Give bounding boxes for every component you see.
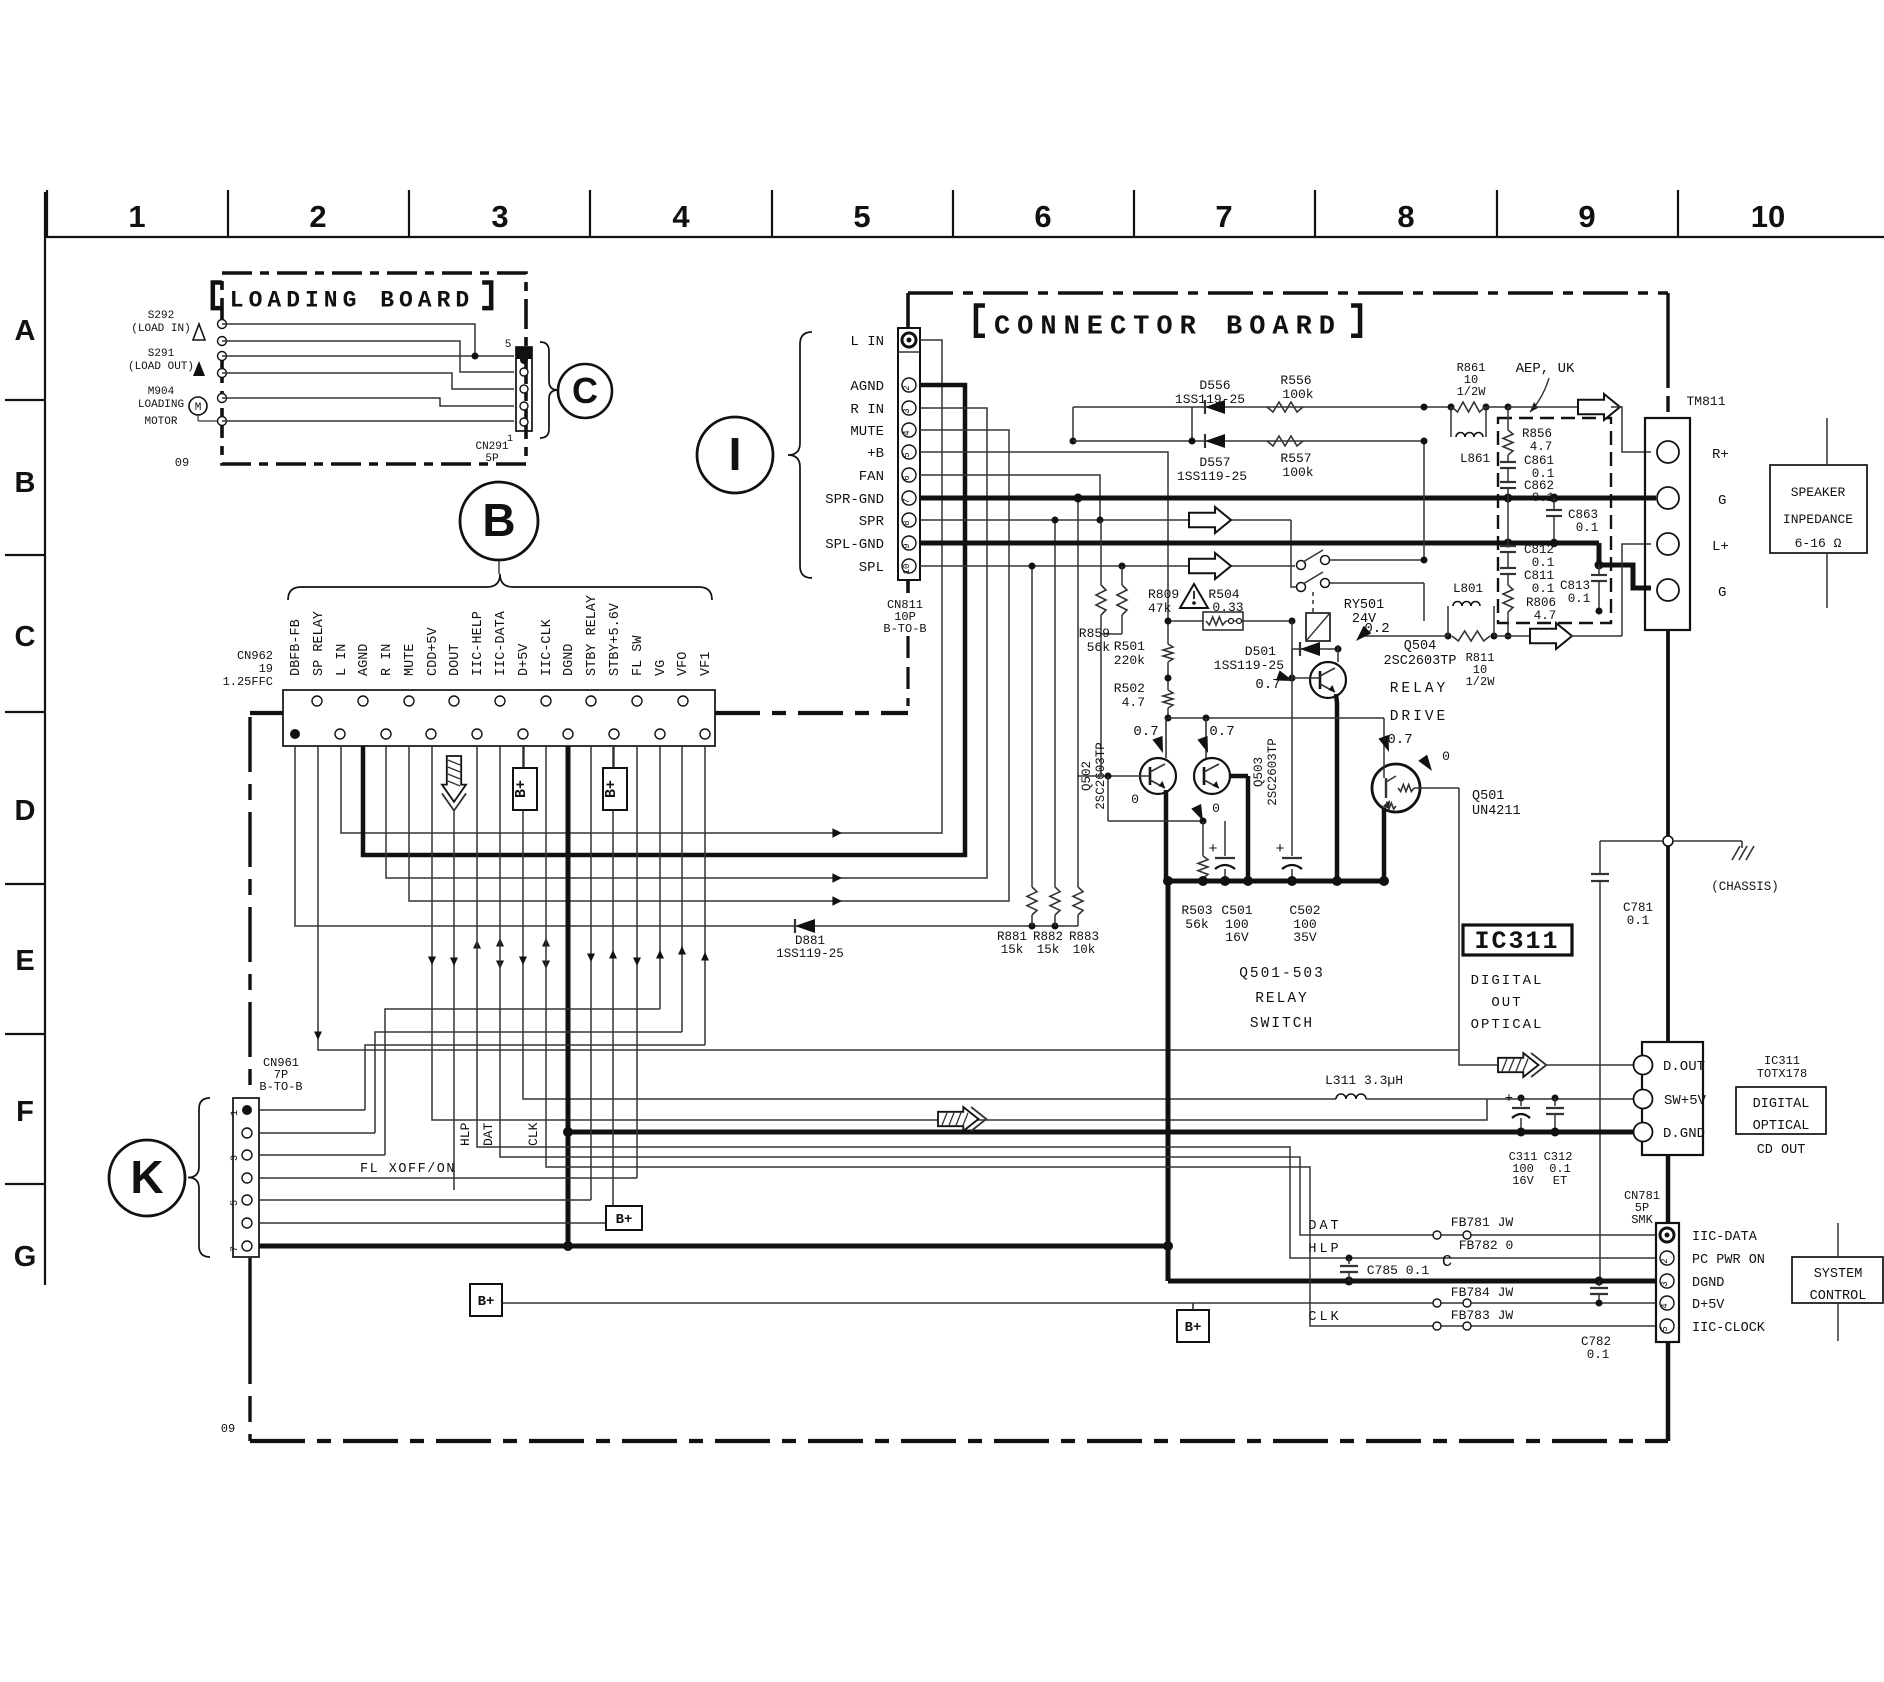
svg-text:IIC-DATA: IIC-DATA (494, 610, 509, 676)
svg-text:3: 3 (902, 408, 912, 413)
svg-text:6-16 Ω: 6-16 Ω (1795, 536, 1842, 551)
svg-text:0: 0 (1212, 801, 1220, 816)
svg-text:PC PWR ON: PC PWR ON (1692, 1253, 1765, 1268)
svg-text:AEP, UK: AEP, UK (1516, 361, 1575, 377)
svg-text:TM811: TM811 (1686, 394, 1725, 409)
svg-text:5: 5 (902, 452, 912, 457)
svg-text:220k: 220k (1114, 653, 1145, 668)
svg-text:L311 3.3µH: L311 3.3µH (1325, 1073, 1403, 1088)
svg-text:D.OUT: D.OUT (1663, 1059, 1705, 1075)
svg-text:C811: C811 (1524, 569, 1554, 583)
svg-text:S292: S292 (148, 310, 174, 322)
svg-text:C: C (15, 621, 36, 653)
svg-text:G: G (1718, 493, 1726, 509)
svg-text:15k: 15k (1001, 943, 1024, 957)
svg-text:Q502: Q502 (1080, 761, 1094, 791)
svg-text:19: 19 (259, 662, 273, 676)
svg-text:A: A (15, 315, 36, 347)
svg-text:6: 6 (902, 475, 912, 480)
svg-text:R502: R502 (1114, 681, 1145, 696)
svg-text:0.7: 0.7 (1209, 724, 1234, 740)
svg-text:DBFB-FB: DBFB-FB (289, 619, 304, 676)
svg-text:35V: 35V (1293, 930, 1317, 945)
svg-text:3: 3 (1660, 1281, 1670, 1286)
svg-text:C812: C812 (1524, 543, 1554, 557)
svg-text:CD OUT: CD OUT (1757, 1143, 1806, 1158)
svg-text:C: C (572, 370, 598, 411)
svg-text:Q501-503: Q501-503 (1239, 966, 1325, 982)
svg-text:RY501: RY501 (1344, 598, 1385, 613)
svg-text:16V: 16V (1512, 1174, 1534, 1188)
svg-text:IIC-HELP: IIC-HELP (471, 611, 486, 676)
svg-text:Q503: Q503 (1252, 757, 1266, 787)
svg-text:B+: B+ (616, 1212, 633, 1228)
svg-text:F: F (16, 1096, 34, 1128)
svg-text:10k: 10k (1073, 943, 1096, 957)
svg-text:0.1: 0.1 (1627, 914, 1650, 928)
svg-text:B+: B+ (1185, 1320, 1202, 1336)
svg-text:I: I (729, 428, 742, 480)
svg-text:1SS119-25: 1SS119-25 (776, 947, 844, 961)
svg-text:ET: ET (1553, 1174, 1567, 1188)
svg-text:56k: 56k (1185, 917, 1209, 932)
svg-text:CONTROL: CONTROL (1810, 1289, 1867, 1304)
svg-text:C785 0.1: C785 0.1 (1367, 1263, 1430, 1278)
svg-text:4: 4 (902, 430, 912, 435)
svg-text:CN962: CN962 (237, 649, 273, 663)
svg-text:8: 8 (902, 520, 912, 525)
svg-text:R+: R+ (1712, 447, 1729, 463)
svg-text:1/2W: 1/2W (1457, 385, 1487, 399)
svg-text:0.7: 0.7 (1133, 724, 1158, 740)
svg-text:2SC2603TP: 2SC2603TP (1266, 738, 1280, 806)
svg-text:56k: 56k (1087, 640, 1111, 655)
svg-text:SPR: SPR (859, 514, 885, 530)
svg-text:(LOAD OUT): (LOAD OUT) (128, 361, 194, 373)
svg-text:B-TO-B: B-TO-B (883, 622, 926, 636)
svg-text:SWITCH: SWITCH (1250, 1016, 1314, 1032)
svg-text:0.7: 0.7 (1387, 732, 1412, 748)
svg-text:M: M (195, 402, 202, 414)
svg-text:2: 2 (1660, 1258, 1670, 1263)
svg-text:RELAY: RELAY (1255, 991, 1309, 1007)
svg-text:FAN: FAN (859, 469, 884, 485)
svg-text:09: 09 (175, 456, 189, 470)
svg-text:OPTICAL: OPTICAL (1753, 1119, 1810, 1134)
svg-text:2: 2 (902, 385, 912, 390)
svg-text:B-TO-B: B-TO-B (259, 1080, 302, 1094)
svg-text:R881: R881 (997, 930, 1027, 944)
svg-text:R806: R806 (1526, 596, 1556, 610)
svg-text:4.7: 4.7 (1530, 440, 1553, 454)
svg-text:100k: 100k (1282, 465, 1313, 480)
svg-text:FB782 0: FB782 0 (1459, 1238, 1514, 1253)
svg-text:M904: M904 (148, 386, 175, 398)
svg-text:4: 4 (1660, 1303, 1670, 1308)
svg-text:DAT: DAT (481, 1122, 496, 1146)
svg-text:R809: R809 (1148, 587, 1179, 602)
svg-text:R501: R501 (1114, 639, 1145, 654)
svg-text:DIGITAL: DIGITAL (1753, 1097, 1810, 1112)
svg-text:R556: R556 (1280, 373, 1311, 388)
svg-text:RELAY: RELAY (1390, 681, 1449, 697)
svg-text:+B: +B (867, 446, 884, 462)
svg-text:FB781 JW: FB781 JW (1451, 1215, 1514, 1230)
svg-text:4: 4 (672, 199, 690, 234)
svg-text:AGND: AGND (850, 379, 884, 395)
svg-text:MOTOR: MOTOR (144, 416, 177, 428)
svg-text:2: 2 (309, 199, 326, 234)
svg-text:S291: S291 (148, 348, 175, 360)
svg-text:9: 9 (902, 543, 912, 548)
svg-text:0.1: 0.1 (1587, 1348, 1610, 1362)
svg-text:IIC-CLK: IIC-CLK (540, 618, 555, 676)
svg-text:SP RELAY: SP RELAY (312, 611, 327, 676)
svg-text:3: 3 (491, 199, 508, 234)
svg-text:R IN: R IN (850, 402, 884, 418)
svg-text:09: 09 (221, 1422, 235, 1436)
svg-text:Q501: Q501 (1472, 789, 1504, 804)
svg-text:IC311: IC311 (1474, 927, 1559, 956)
svg-text:5P: 5P (485, 453, 499, 465)
svg-text:DIGITAL: DIGITAL (1471, 973, 1544, 989)
svg-text:L IN: L IN (850, 334, 884, 350)
svg-text:Q504: Q504 (1404, 639, 1436, 654)
svg-text:SPL-GND: SPL-GND (825, 537, 884, 553)
svg-text:MUTE: MUTE (403, 644, 418, 676)
svg-text:10: 10 (902, 564, 912, 575)
svg-text:5: 5 (853, 199, 870, 234)
svg-text:C: C (1442, 1253, 1452, 1272)
svg-text:UN4211: UN4211 (1472, 804, 1521, 819)
svg-text:1.25FFC: 1.25FFC (223, 675, 273, 689)
svg-text:7: 7 (902, 498, 912, 503)
svg-text:D881: D881 (795, 934, 825, 948)
svg-text:100k: 100k (1282, 387, 1313, 402)
svg-text:(LOAD IN): (LOAD IN) (131, 323, 190, 335)
svg-text:STBY+5.6V: STBY+5.6V (608, 602, 623, 676)
svg-text:E: E (15, 945, 34, 977)
svg-text:VG: VG (654, 660, 669, 676)
svg-text:IC311: IC311 (1764, 1054, 1800, 1068)
svg-text:FB783 JW: FB783 JW (1451, 1308, 1514, 1323)
svg-text:B+: B+ (513, 780, 530, 798)
svg-text:OPTICAL: OPTICAL (1471, 1017, 1544, 1033)
svg-text:D+5V: D+5V (1692, 1298, 1725, 1313)
svg-text:7: 7 (230, 1246, 241, 1252)
svg-text:TOTX178: TOTX178 (1757, 1067, 1807, 1081)
svg-text:D+5V: D+5V (517, 643, 532, 676)
svg-text:1SS119-25: 1SS119-25 (1177, 469, 1247, 484)
svg-text:L861: L861 (1460, 452, 1490, 466)
svg-text:CONNECTOR BOARD: CONNECTOR BOARD (994, 313, 1342, 343)
svg-text:5: 5 (1660, 1326, 1670, 1331)
svg-text:1/2W: 1/2W (1466, 675, 1496, 689)
svg-text:15k: 15k (1037, 943, 1060, 957)
svg-text:4.7: 4.7 (1534, 609, 1557, 623)
svg-text:+: + (1275, 841, 1284, 858)
svg-text:D557: D557 (1199, 455, 1230, 470)
svg-text:D556: D556 (1199, 378, 1230, 393)
svg-text:7: 7 (1215, 199, 1232, 234)
svg-text:2SC2603TP: 2SC2603TP (1094, 742, 1108, 810)
svg-text:L801: L801 (1453, 582, 1483, 596)
svg-text:DAT: DAT (1308, 1219, 1341, 1234)
svg-text:FB784 JW: FB784 JW (1451, 1285, 1514, 1300)
svg-text:D501: D501 (1245, 644, 1276, 659)
svg-text:2SC2603TP: 2SC2603TP (1384, 654, 1457, 669)
svg-text:D: D (15, 795, 36, 827)
svg-text:IIC-CLOCK: IIC-CLOCK (1692, 1321, 1766, 1336)
svg-text:K: K (130, 1151, 163, 1203)
svg-text:1SS119-25: 1SS119-25 (1214, 658, 1284, 673)
svg-text:0.33: 0.33 (1212, 600, 1243, 615)
svg-text:DRIVE: DRIVE (1390, 709, 1449, 725)
svg-text:SPR-GND: SPR-GND (825, 492, 884, 508)
svg-text:SPEAKER: SPEAKER (1791, 485, 1846, 500)
svg-text:C863: C863 (1568, 508, 1598, 522)
svg-text:C782: C782 (1581, 1335, 1611, 1349)
svg-text:6: 6 (1034, 199, 1051, 234)
svg-text:(CHASSIS): (CHASSIS) (1711, 880, 1779, 894)
svg-text:AGND: AGND (357, 644, 372, 676)
svg-text:R859: R859 (1079, 626, 1110, 641)
svg-text:R503: R503 (1181, 903, 1212, 918)
svg-text:C501: C501 (1221, 903, 1252, 918)
svg-text:STBY RELAY: STBY RELAY (585, 595, 600, 676)
svg-text:+: + (1208, 841, 1217, 858)
svg-text:8: 8 (1397, 199, 1414, 234)
svg-text:16V: 16V (1225, 930, 1249, 945)
svg-text:0.1: 0.1 (1532, 491, 1555, 505)
svg-text:L IN: L IN (335, 644, 350, 676)
svg-text:OUT: OUT (1491, 995, 1522, 1011)
svg-text:9: 9 (1578, 199, 1595, 234)
svg-text:FL SW: FL SW (631, 635, 646, 676)
svg-text:10: 10 (1751, 199, 1785, 234)
svg-text:1: 1 (128, 199, 145, 234)
svg-text:CLK: CLK (1308, 1310, 1341, 1325)
svg-text:G: G (14, 1241, 37, 1273)
svg-text:R557: R557 (1280, 451, 1311, 466)
svg-text:0: 0 (1442, 749, 1450, 764)
svg-text:INPEDANCE: INPEDANCE (1783, 512, 1853, 527)
svg-text:0.1: 0.1 (1532, 556, 1555, 570)
svg-text:C502: C502 (1289, 903, 1320, 918)
svg-text:VF1: VF1 (699, 652, 714, 676)
svg-text:0.1: 0.1 (1576, 521, 1599, 535)
svg-text:R883: R883 (1069, 930, 1099, 944)
svg-text:SW+5V: SW+5V (1664, 1093, 1707, 1109)
svg-text:DOUT: DOUT (448, 644, 463, 676)
svg-text:SYSTEM: SYSTEM (1814, 1267, 1863, 1282)
svg-text:B+: B+ (603, 780, 620, 798)
svg-text:4.7: 4.7 (1122, 695, 1145, 710)
svg-text:5: 5 (505, 339, 512, 351)
svg-text:LOADING BOARD: LOADING BOARD (230, 287, 474, 313)
svg-text:IIC-DATA: IIC-DATA (1692, 1230, 1758, 1245)
svg-text:DGND: DGND (562, 644, 577, 676)
svg-text:C861: C861 (1524, 454, 1554, 468)
svg-text:G: G (1718, 585, 1726, 601)
svg-text:B: B (15, 467, 36, 499)
svg-text:DGND: DGND (1692, 1276, 1724, 1291)
svg-text:3: 3 (230, 1155, 241, 1161)
svg-text:HLP: HLP (1308, 1242, 1341, 1257)
svg-text:CDD+5V: CDD+5V (426, 626, 441, 676)
svg-text:C813: C813 (1560, 579, 1590, 593)
svg-text:B: B (482, 494, 515, 546)
svg-text:LOADING: LOADING (138, 399, 184, 411)
svg-text:HLP: HLP (458, 1122, 473, 1146)
svg-text:0.1: 0.1 (1532, 582, 1555, 596)
svg-text:D.GND: D.GND (1663, 1126, 1705, 1142)
svg-text:R856: R856 (1522, 427, 1552, 441)
svg-text:SMK: SMK (1631, 1213, 1653, 1227)
svg-text:MUTE: MUTE (850, 424, 884, 440)
svg-text:CN291: CN291 (475, 441, 508, 453)
svg-text:SPL: SPL (859, 560, 884, 576)
svg-text:VFO: VFO (676, 652, 691, 676)
svg-text:C781: C781 (1623, 901, 1653, 915)
svg-text:R882: R882 (1033, 930, 1063, 944)
svg-text:R IN: R IN (380, 644, 395, 676)
svg-text:1SS119-25: 1SS119-25 (1175, 392, 1245, 407)
svg-text:B+: B+ (478, 1294, 495, 1310)
svg-text:0.1: 0.1 (1568, 592, 1591, 606)
svg-text:0: 0 (1131, 792, 1139, 807)
svg-text:47k: 47k (1148, 601, 1172, 616)
svg-text:+: + (1505, 1091, 1513, 1107)
svg-text:1: 1 (230, 1110, 241, 1116)
svg-text:FL XOFF/ON: FL XOFF/ON (360, 1162, 456, 1177)
svg-text:L+: L+ (1712, 539, 1729, 555)
svg-text:5: 5 (230, 1200, 241, 1206)
svg-text:CLK: CLK (526, 1122, 541, 1146)
